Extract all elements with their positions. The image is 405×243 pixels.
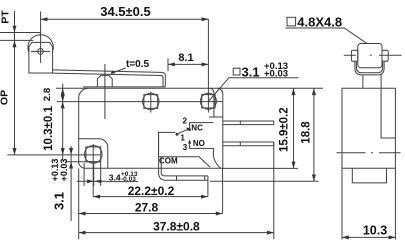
svg-text:PT: PT [0,10,12,24]
dim 3.4 extension lines [84,163,94,186]
square bottom extension line [65,161,100,163]
roller circle [28,35,53,60]
lever arm [53,70,166,87]
terminal NO (middle) [223,142,274,146]
square hole left-top [144,95,158,109]
svg-text:10.3: 10.3 [363,224,387,238]
dim 15.9±0.2 [293,88,295,168]
dim 22.2±0.2 [93,196,208,198]
label square 3.1 tolerances with leader [233,68,240,75]
bottom hole axis line [7,154,100,156]
side view fork inner [356,62,382,73]
svg-text:NC: NC [191,123,203,132]
terminal NC (top) [223,121,274,125]
dim 18.8 [313,88,315,181]
svg-text:COM: COM [159,157,178,166]
svg-text:1: 1 [180,133,185,142]
label square 4.8X4.8 with leader [287,17,296,26]
side view pin tab left [351,50,357,61]
roller pin [38,49,44,55]
svg-text:37.8±0.8: 37.8±0.8 [153,220,200,234]
mounting hole bottom-left circle [85,146,103,164]
case lid seam line [83,86,165,88]
side view terminal base [352,168,386,183]
extension line inner wall [222,168,224,213]
lever fork plate [29,42,53,73]
svg-text:3: 3 [183,143,188,152]
free position line [0,32,41,34]
dim 3.1 vertical line [70,146,72,221]
extension line COM end [207,176,209,197]
svg-text:8.1: 8.1 [178,52,193,64]
schematic NC contact [190,123,214,129]
svg-text:18.8: 18.8 [301,121,313,144]
side view roller square [358,44,382,68]
case inner wall near terminals [209,116,223,118]
dim 8.1 [168,63,208,65]
side view body [342,88,395,239]
extension line body left [78,169,80,240]
schematic pole lever [178,129,189,134]
lever arm inner line [53,73,163,87]
svg-text:10.3±0.1: 10.3±0.1 [43,106,55,151]
side view roller center line [344,54,402,56]
dim 3.4 line [77,180,107,182]
case inner rib arc [213,148,221,168]
dim 2.8 arrows [61,88,65,95]
dim 10.3 arrows [61,102,65,109]
svg-text:3.1: 3.1 [52,192,67,210]
svg-text:OP: OP [0,90,11,105]
dim 10.3 side [342,236,395,238]
dim 2.8/10.3 vertical line [62,84,64,161]
holes axis line [57,101,223,103]
svg-text:4.8X4.8: 4.8X4.8 [297,15,342,30]
square hole right-top [202,95,215,108]
hole center vertical lines [150,92,152,113]
COM terminal bent strip [159,132,208,180]
side view pin tab right [382,50,388,61]
switch body outline [56,88,323,168]
svg-text:3.1: 3.1 [242,64,260,79]
square hole bottom-left [86,147,101,162]
side view notch [381,74,395,139]
svg-text:+0.03: +0.03 [59,159,69,182]
plunger center line [104,64,106,119]
svg-text:3.4: 3.4 [109,173,121,183]
side view fork outer [355,61,384,75]
mounting hole left-top [143,93,159,109]
dim PT vertical line [14,11,16,155]
roller pin center lines [31,12,50,63]
operating position line [0,39,33,41]
svg-text:34.5±0.5: 34.5±0.5 [100,4,151,19]
internal COM slot outline [159,132,211,167]
extension line terminal ends [273,142,275,239]
square hole right edge extension [100,162,102,186]
svg-text:2.8: 2.8 [42,88,53,101]
svg-text:t=0.5: t=0.5 [126,59,150,70]
side view body center line [337,152,401,154]
dim OP bottom arrow [13,148,17,155]
plunger [97,75,112,87]
svg-text:NO: NO [193,139,205,148]
svg-text:27.8: 27.8 [135,201,159,215]
svg-text:15.9±0.2: 15.9±0.2 [279,107,291,152]
schematic NO contact [190,141,214,148]
svg-text:22.2±0.2: 22.2±0.2 [128,184,175,198]
bottom hole vertical center line [92,144,94,197]
side view stem [362,75,364,89]
dim 34.5±0.5 [41,18,209,20]
dim 37.8±0.8 [79,232,274,234]
svg-text:2: 2 [182,116,187,125]
schematic pivot dot [176,133,179,136]
dim 27.8 [79,213,223,215]
dim PT arrows [13,26,17,33]
mounting hole right-top [200,93,216,109]
hole boss contour [79,139,108,169]
